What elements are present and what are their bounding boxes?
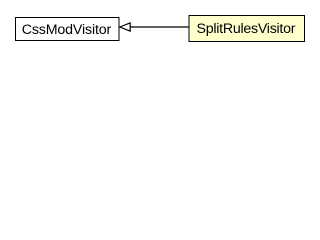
background xyxy=(0,0,319,59)
class box SplitRulesVisitor (highlighted) xyxy=(189,16,305,42)
generalization edge line xyxy=(130,26,190,28)
class box CssModVisitor xyxy=(16,18,120,41)
svg-text:CssModVisitor: CssModVisitor xyxy=(22,22,112,38)
svg-text:SplitRulesVisitor: SplitRulesVisitor xyxy=(197,21,296,37)
hollow triangle arrowhead xyxy=(120,23,130,31)
